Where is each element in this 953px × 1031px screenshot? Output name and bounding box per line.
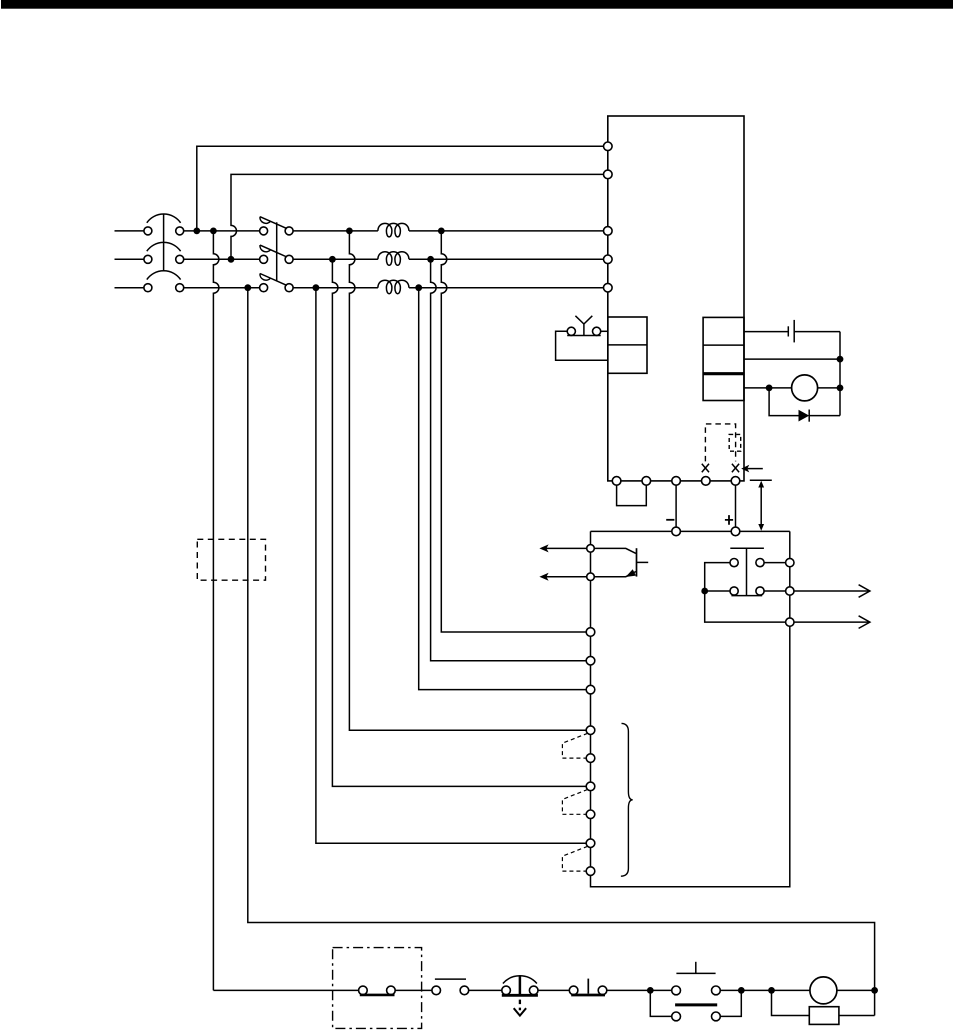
X mark terminal 5 bbox=[732, 464, 739, 472]
bottom rung segment 4 bbox=[538, 989, 570, 991]
dashed battery unit rect bbox=[729, 434, 741, 451]
circuit breaker NFB pole 2 bbox=[144, 242, 184, 263]
node phase1 pre-reactor bbox=[346, 228, 353, 235]
node phase1 tap R2 bbox=[210, 228, 217, 235]
wire diode branch bbox=[769, 388, 840, 416]
node right bus fan bbox=[837, 385, 844, 392]
terminal t on drive left edge bbox=[604, 170, 613, 179]
MC coil bbox=[810, 977, 837, 1004]
node phase2 tap bbox=[228, 256, 235, 263]
terminal cn row9 bbox=[586, 867, 595, 876]
node phase1 tap R1 bbox=[193, 228, 200, 235]
reactor coil phase 3 bbox=[378, 280, 409, 294]
bottom rung segment 7 bbox=[837, 989, 875, 991]
wire L3 input stub bbox=[115, 287, 144, 289]
contactor MC pole 3 bbox=[260, 274, 294, 292]
node right vertical row2 bbox=[786, 587, 794, 595]
node phase3 post-reactor bbox=[415, 284, 422, 291]
terminal b2 drive bottom bbox=[642, 477, 651, 486]
bottom rung segment 6 bbox=[720, 989, 810, 991]
node right vertical row3 bbox=[786, 618, 794, 626]
node phase1 post-reactor bbox=[438, 228, 445, 235]
wire long drop from phase3 to lower run bbox=[248, 288, 875, 1016]
wire phase 3 contactor to reactor bbox=[293, 287, 378, 289]
terminal cn row1 bbox=[586, 628, 595, 637]
bottom rung segment 1 bbox=[213, 989, 358, 991]
bottom rung segment 3 bbox=[469, 989, 503, 991]
node resistor branch left bbox=[768, 987, 775, 994]
terminal r on drive left edge bbox=[604, 142, 613, 151]
contactor linkage bbox=[276, 222, 278, 281]
encoder output arrow upper bbox=[539, 544, 586, 552]
node right bus mid bbox=[837, 356, 844, 363]
wire drop phase1 to terminal row4 bbox=[349, 231, 586, 730]
bottom rung segment 5 bbox=[607, 989, 672, 991]
servo drive unit outline bbox=[608, 116, 744, 481]
circuit breaker linkage bbox=[163, 214, 165, 271]
brace grouping terminals bbox=[621, 723, 633, 876]
terminal cn row4 bbox=[586, 726, 595, 735]
header bar bbox=[1, 0, 953, 9]
terminal cn row3 bbox=[586, 685, 595, 694]
relay contact block bbox=[730, 548, 764, 595]
wire terminal b5 to plus node bbox=[735, 485, 737, 527]
reactor coil phase 1 bbox=[378, 223, 409, 237]
wire thermal protector right lead bbox=[601, 330, 608, 332]
wire drop phase2 to terminal row2 bbox=[431, 259, 587, 660]
wire mid to right bus bbox=[744, 358, 840, 360]
terminal b4 drive bottom bbox=[702, 477, 711, 486]
stop contact bbox=[432, 979, 469, 995]
wire long drop from phase1 to bottom rung bbox=[213, 231, 219, 991]
wire drop phase3 to terminal row6 bbox=[316, 288, 586, 844]
terminal R drive bbox=[604, 227, 613, 236]
node plus on bus bbox=[731, 527, 740, 536]
wire terminal b3 to minus node bbox=[675, 485, 677, 527]
node phase2 pre-reactor bbox=[329, 256, 336, 263]
emergency stop button bbox=[502, 976, 538, 1016]
node right vertical row1 bbox=[786, 558, 794, 566]
self-hold NO contact branch bbox=[650, 990, 741, 1020]
control left vertical and bottom link bbox=[591, 531, 790, 886]
dashed jumper row6 to row7 bbox=[562, 790, 587, 815]
node phase3 pre-reactor bbox=[313, 284, 320, 291]
wire L1 input stub bbox=[115, 230, 144, 232]
wire fan to right bus bbox=[818, 387, 840, 389]
terminal T drive bbox=[604, 283, 613, 292]
wire thermal protector loop bbox=[556, 331, 608, 360]
wire phase 1 contactor to reactor bbox=[293, 230, 378, 232]
wire relay left loop bbox=[705, 563, 786, 623]
node relay left bbox=[701, 588, 708, 595]
wire phase 3 reactor to drive bbox=[409, 287, 604, 289]
fan motor circle bbox=[792, 375, 818, 401]
X mark terminal 4 bbox=[702, 464, 709, 472]
node phase2 post-reactor bbox=[427, 256, 434, 263]
battery cell bbox=[788, 320, 794, 343]
thermal protector contacts bbox=[567, 316, 601, 336]
terminal b1 drive bottom bbox=[612, 477, 621, 486]
node fan branch left bbox=[766, 385, 773, 392]
contactor MC pole 1 bbox=[260, 217, 294, 235]
MC auxiliary contact bbox=[359, 986, 396, 995]
wire breaker to contactor phase 3 bbox=[184, 287, 260, 289]
dashed battery connector outline bbox=[705, 424, 735, 462]
terminal cn row2 bbox=[586, 656, 595, 665]
wire drop phase1 to terminal row1 bbox=[441, 231, 586, 632]
jumper link box under terminals bbox=[617, 485, 647, 505]
node lower run right bbox=[871, 987, 878, 994]
wire control run upper R1 bbox=[197, 146, 604, 231]
wire relay right row2 bbox=[764, 590, 785, 592]
circuit breaker NFB pole 1 bbox=[144, 214, 184, 235]
node self-hold branch left bbox=[647, 987, 654, 994]
wire L2 input stub bbox=[115, 258, 144, 260]
wire phase 2 contactor to reactor bbox=[293, 258, 378, 260]
output transistor bbox=[594, 548, 648, 577]
wire battery to right bus bbox=[794, 331, 840, 333]
control bus horizontal bbox=[591, 530, 790, 532]
dashed jumper row8 to row9 bbox=[562, 846, 587, 871]
circuit breaker NFB pole 3 bbox=[144, 271, 184, 292]
dashed box around drop wires bbox=[197, 539, 265, 580]
chain-dot box around MC contact bbox=[333, 948, 422, 1029]
wire drop phase2 to terminal row5 bbox=[332, 259, 586, 786]
node transistor collector bbox=[587, 545, 595, 553]
dimension double arrow bbox=[758, 481, 764, 531]
wire to battery bbox=[744, 331, 788, 333]
node transistor emitter bbox=[587, 573, 595, 581]
encoder output arrow lower bbox=[539, 573, 586, 581]
terminal cn row7 bbox=[586, 810, 595, 819]
surge suppressor branch bbox=[772, 990, 875, 1024]
relay NC contact bbox=[672, 962, 721, 995]
label plus bbox=[725, 515, 733, 525]
wire breaker to contactor phase 1 bbox=[184, 230, 260, 232]
right bus vertical bbox=[839, 332, 841, 416]
regeneration option box on drive bbox=[608, 317, 647, 373]
terminal cn row8 bbox=[586, 839, 595, 848]
dashed jumper row4 to row5 bbox=[562, 733, 587, 758]
wire relay left row2 bbox=[705, 590, 730, 592]
battery option box on drive bbox=[703, 317, 744, 400]
node phase3 tap long drop bbox=[244, 284, 251, 291]
wire phase 2 reactor to drive bbox=[409, 258, 604, 260]
node self-hold branch right bbox=[738, 987, 745, 994]
alarm output arrow lower bbox=[794, 616, 870, 629]
terminal b5 drive bottom bbox=[731, 477, 740, 486]
wire relay right row1 bbox=[764, 562, 785, 564]
wire phase 1 reactor to drive bbox=[409, 230, 604, 232]
terminal cn row5 bbox=[586, 754, 595, 763]
wire control run lower from phase2 bbox=[231, 174, 604, 259]
terminal b3 drive bottom bbox=[672, 477, 681, 486]
arrow pointing at battery terminal bbox=[741, 465, 763, 473]
terminal cn row6 bbox=[586, 782, 595, 791]
contactor MC pole 2 bbox=[260, 245, 294, 263]
bottom rung segment 2 bbox=[395, 989, 432, 991]
node minus on bus bbox=[672, 527, 681, 536]
wire drive to fan motor bbox=[744, 387, 791, 389]
label minus bbox=[666, 519, 674, 521]
dimension reference tick bbox=[750, 479, 772, 481]
terminal S drive bbox=[604, 255, 613, 264]
alarm output arrow upper bbox=[794, 585, 870, 598]
reactor coil phase 2 bbox=[378, 252, 409, 266]
diode bbox=[799, 410, 810, 422]
wire drop phase3 to terminal row3 bbox=[419, 288, 587, 690]
start pushbutton bbox=[569, 979, 607, 995]
wire breaker to contactor phase 2 bbox=[184, 258, 260, 260]
